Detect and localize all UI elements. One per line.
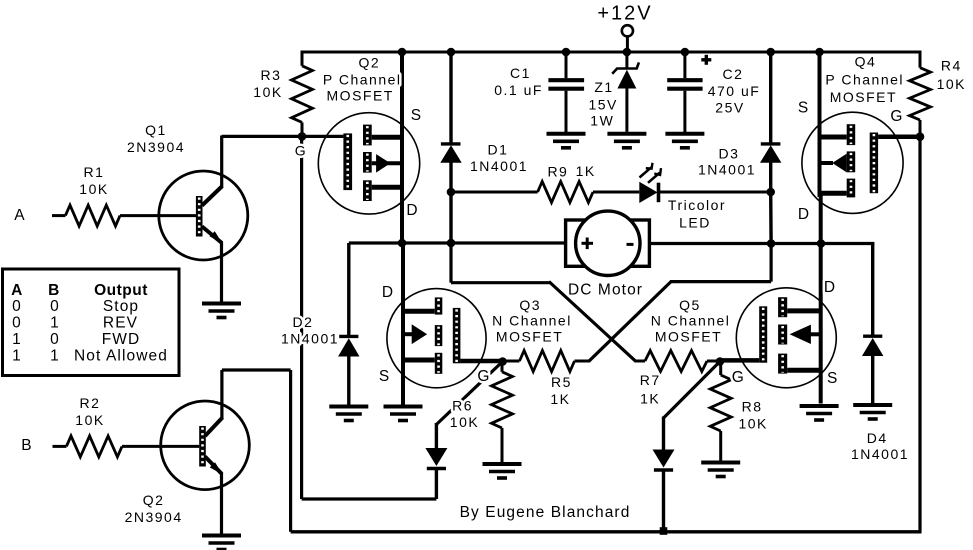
+12V supply terminal (622, 25, 633, 52)
svg-text:S: S (798, 100, 809, 117)
svg-text:+12V: +12V (597, 3, 652, 25)
node Q3 gate / R5 / R6 (498, 357, 507, 366)
svg-text:D: D (824, 279, 836, 296)
wire top +12V rail (301, 51, 922, 68)
ground Q5 source (800, 406, 839, 420)
resistor R4 10K (910, 68, 931, 137)
svg-text:REV: REV (103, 315, 138, 332)
svg-text:0: 0 (50, 298, 60, 315)
svg-text:1: 1 (50, 315, 60, 332)
ground D2 (329, 407, 368, 421)
svg-text:S: S (411, 107, 422, 124)
svg-text:MOSFET: MOSFET (655, 329, 722, 345)
svg-text:1K: 1K (640, 391, 660, 407)
svg-text:0: 0 (12, 315, 22, 332)
resistor R9 1K (451, 182, 639, 203)
node Q4 gate / R4 (916, 132, 925, 141)
MOSFET Q3 N Channel (387, 243, 503, 405)
svg-text:Output: Output (94, 282, 148, 299)
svg-text:Q1: Q1 (145, 122, 167, 138)
svg-text:S: S (379, 368, 390, 385)
svg-text:10K: 10K (450, 414, 479, 430)
svg-text:R2: R2 (80, 395, 101, 411)
node Q4 drain / Q5 drain (817, 239, 826, 248)
MOSFET Q2 P Channel (318, 52, 419, 243)
ground C1 (547, 134, 586, 148)
svg-text:Z1: Z1 (594, 79, 613, 95)
node top rail / Q4 source (815, 48, 824, 57)
svg-text:1: 1 (12, 331, 22, 348)
svg-text:S: S (827, 370, 838, 387)
zener diode Z1 15V 1W (612, 52, 639, 132)
svg-text:R8: R8 (742, 399, 763, 415)
node G Q2 gate / R3 (298, 132, 307, 141)
svg-text:1K: 1K (576, 163, 596, 179)
wire bottom rail Q4 gate drive (291, 137, 922, 532)
DC Motor (566, 211, 650, 275)
svg-text:1W: 1W (590, 113, 614, 129)
svg-text:1N4001: 1N4001 (851, 446, 909, 462)
wire mid rail right (649, 242, 874, 245)
ground C2 (665, 134, 704, 148)
ground Z1 (607, 134, 646, 148)
svg-text:15V: 15V (588, 97, 617, 113)
svg-text:2N3904: 2N3904 (125, 509, 183, 525)
svg-text:R7: R7 (640, 372, 661, 388)
svg-text:0: 0 (12, 298, 22, 315)
capacitor C2 470 uF 25V electrolytic (667, 52, 711, 132)
svg-text:FWD: FWD (102, 331, 141, 348)
node top rail / C1 (562, 48, 571, 57)
diode D4 1N4001 (862, 244, 883, 404)
truth table box (3, 269, 180, 376)
svg-text:B: B (48, 282, 60, 299)
wire D3 node to mid rail (769, 192, 773, 244)
capacitor C1 0.1 uF (548, 52, 584, 132)
wire Q2-gate node long vertical to LED return (302, 136, 437, 499)
wire D1 node to mid rail (449, 192, 452, 243)
node top rail / Z1 (623, 48, 632, 57)
svg-text:D: D (406, 202, 418, 219)
resistor R3 10K (292, 66, 313, 137)
svg-text:0.1 uF: 0.1 uF (494, 82, 543, 98)
svg-text:R1: R1 (84, 164, 105, 180)
svg-text:D: D (382, 284, 394, 301)
ground R8 (701, 463, 740, 477)
ground D4 (853, 405, 892, 419)
diode indicator right branch (653, 362, 720, 532)
svg-text:2N3904: 2N3904 (127, 139, 185, 155)
ground Q2 emitter (202, 536, 241, 550)
svg-text:D2: D2 (293, 314, 314, 330)
svg-text:0: 0 (50, 331, 60, 348)
svg-text:Q5: Q5 (679, 297, 701, 313)
svg-text:R5: R5 (551, 374, 572, 390)
resistor R2 10K (53, 436, 200, 457)
node top rail / Q2 source (398, 48, 407, 57)
node motor right branch (767, 239, 776, 248)
svg-text:MOSFET: MOSFET (327, 88, 394, 104)
svg-text:By Eugene Blanchard: By Eugene Blanchard (460, 504, 631, 521)
resistor R5 1K (503, 351, 590, 372)
svg-text:10K: 10K (75, 412, 104, 428)
svg-text:A: A (11, 282, 23, 299)
svg-text:10K: 10K (253, 84, 282, 100)
svg-text:P Channel: P Channel (825, 72, 904, 88)
svg-text:R6: R6 (452, 398, 473, 414)
transistor Q2 2N3904 NPN (161, 370, 250, 534)
svg-text:470 uF: 470 uF (708, 83, 761, 99)
svg-text:D4: D4 (867, 430, 888, 446)
svg-text:1K: 1K (550, 391, 570, 407)
svg-text:Q2: Q2 (143, 492, 165, 508)
MOSFET Q5 N Channel (720, 244, 836, 404)
transistor Q1 2N3904 NPN (159, 136, 248, 302)
wire motor-right node to Q3 gate (diagonal) (589, 244, 771, 362)
LED tricolor (639, 163, 770, 203)
node Q2 drain / Q3 drain (398, 239, 407, 248)
svg-text:25V: 25V (715, 100, 744, 116)
ground Q1 emitter (202, 304, 241, 318)
resistor R1 10K (52, 205, 196, 226)
svg-text:10K: 10K (937, 76, 966, 92)
svg-text:Stop: Stop (103, 298, 139, 315)
svg-text:D: D (798, 206, 810, 223)
ground R6 (483, 464, 522, 478)
svg-text:D1: D1 (488, 142, 509, 158)
wire Q1 collector to Q2 gate (222, 135, 344, 138)
svg-text:10K: 10K (738, 416, 767, 432)
node D1 / R9 (447, 188, 456, 197)
ground Q3 source (384, 407, 423, 421)
svg-text:Q2: Q2 (359, 55, 381, 71)
svg-text:1: 1 (12, 348, 22, 365)
svg-text:10K: 10K (79, 181, 108, 197)
svg-text:1: 1 (50, 348, 60, 365)
diode D1 1N4001 (440, 52, 461, 192)
svg-text:A: A (14, 207, 25, 224)
svg-text:D3: D3 (719, 146, 740, 162)
svg-text:DC Motor: DC Motor (568, 282, 643, 299)
svg-text:G: G (732, 369, 745, 386)
node top rail / D3 (766, 48, 775, 57)
svg-text:N Channel: N Channel (651, 313, 731, 329)
wire motor-left node to Q5 gate (diagonal) (451, 243, 636, 361)
node top rail / C2 (681, 48, 690, 57)
svg-text:B: B (21, 437, 32, 454)
svg-text:R4: R4 (941, 58, 962, 74)
svg-text:P Channel: P Channel (323, 72, 402, 88)
diode D2 1N4001 (338, 243, 359, 405)
svg-text:1N4001: 1N4001 (281, 331, 339, 347)
svg-text:Q4: Q4 (855, 54, 877, 70)
MOSFET Q4 P Channel (802, 52, 920, 244)
svg-text:C1: C1 (510, 65, 531, 81)
svg-text:N Channel: N Channel (492, 313, 572, 329)
diode D3 1N4001 (760, 52, 781, 192)
svg-text:MOSFET: MOSFET (496, 329, 563, 345)
svg-text:R3: R3 (261, 67, 282, 83)
svg-text:G: G (295, 143, 307, 159)
resistor R7 1K (635, 351, 720, 372)
svg-text:Q3: Q3 (519, 297, 541, 313)
svg-text:G: G (477, 368, 490, 385)
node top rail / D1 (447, 48, 456, 57)
svg-text:Tricolor: Tricolor (668, 197, 726, 213)
svg-text:1N4001: 1N4001 (698, 162, 756, 178)
diode indicator left branch (425, 362, 502, 500)
wire Q2 collector to bottom rail (222, 370, 291, 532)
resistor R6 10K (492, 362, 513, 463)
svg-text:LED: LED (679, 215, 711, 231)
svg-text:R9: R9 (547, 164, 568, 180)
svg-text:1N4001: 1N4001 (470, 158, 528, 174)
node Q5 gate / R7 / R8 (716, 357, 725, 366)
resistor R8 10K (710, 362, 731, 462)
node D3 / LED line (766, 188, 775, 197)
svg-text:MOSFET: MOSFET (830, 89, 897, 105)
node motor left branch (447, 239, 456, 248)
node bottom rail / right branch (660, 527, 668, 535)
wire mid rail left (349, 241, 566, 244)
svg-text:G: G (890, 108, 903, 125)
svg-text:C2: C2 (723, 66, 744, 82)
svg-text:Not Allowed: Not Allowed (74, 348, 168, 365)
